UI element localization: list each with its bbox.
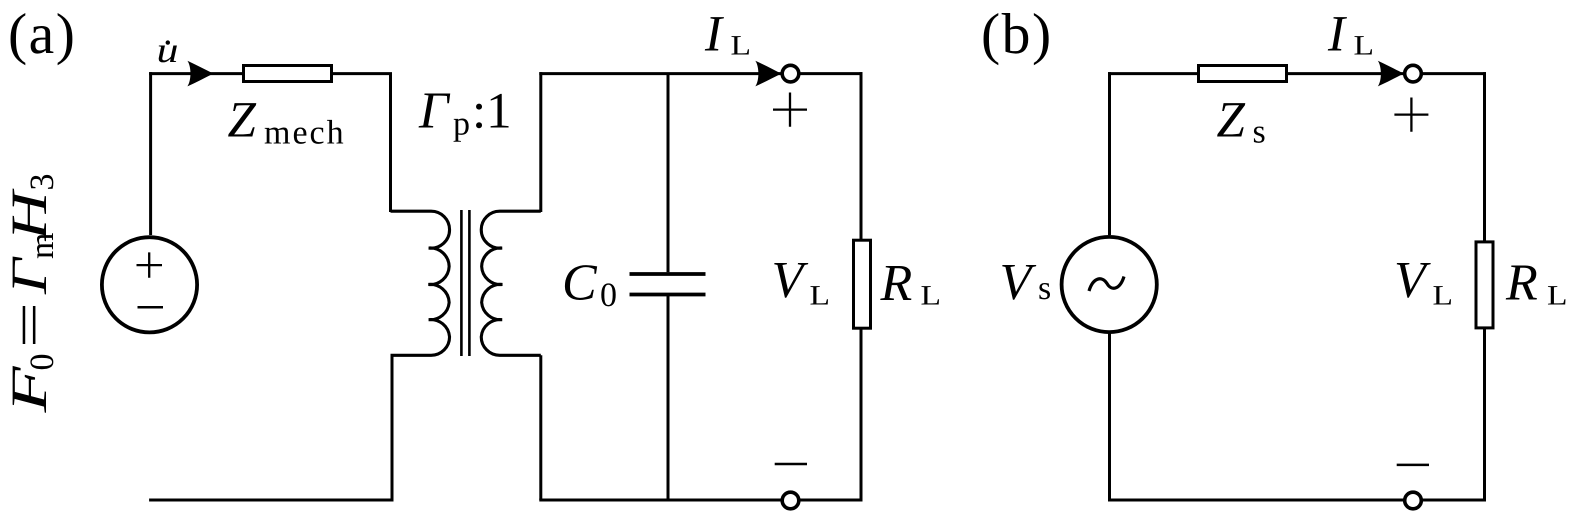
minus sign (b)	[1397, 464, 1429, 467]
plus sign (b)	[1394, 98, 1428, 132]
source circle (a)	[102, 237, 197, 332]
wire secondary bottom vertical	[539, 355, 542, 500]
svg-text::1: :1	[472, 84, 512, 140]
source minus	[138, 306, 164, 309]
transformer T1 primary coil	[391, 211, 450, 355]
terminal bottom (a)	[782, 492, 799, 509]
wire top a4	[800, 72, 863, 75]
wire bottom (b)	[1108, 499, 1486, 502]
transformer T1 secondary coil	[481, 211, 541, 355]
resistor Z_s	[1199, 66, 1287, 82]
svg-text:Z: Z	[228, 93, 257, 149]
svg-text:u: u	[157, 30, 179, 70]
wire top a1	[149, 72, 244, 75]
svg-text:s: s	[1038, 270, 1051, 307]
svg-text:R: R	[880, 255, 913, 312]
capacitor C0 plates	[630, 274, 706, 295]
resistor R_L (b)	[1476, 242, 1493, 328]
svg-text:V: V	[1394, 252, 1431, 309]
source plus	[137, 252, 163, 277]
terminal bottom (b)	[1405, 492, 1422, 509]
wire top a3	[539, 72, 781, 75]
svg-text:L: L	[810, 281, 831, 312]
terminal top (b)	[1405, 65, 1422, 82]
wire top b3	[1422, 72, 1486, 75]
source tilde	[1089, 277, 1124, 292]
terminal top (a)	[782, 65, 799, 82]
svg-text:L: L	[1354, 30, 1375, 61]
svg-text:Γ: Γ	[418, 83, 451, 140]
minus sign (a)	[775, 463, 807, 466]
wire top a2 to transformer	[332, 74, 391, 212]
current arrow I_L (b)	[1378, 61, 1404, 87]
svg-text:L: L	[731, 30, 752, 61]
wire right vertical top (a)	[860, 72, 863, 239]
svg-text:I: I	[1327, 6, 1347, 62]
svg-text:(b): (b)	[981, 3, 1053, 66]
svg-text:L: L	[921, 281, 942, 312]
wire bottom left (a)	[149, 355, 392, 500]
wire secondary top vertical	[539, 72, 542, 212]
wire left vertical bottom (b)	[1108, 332, 1111, 502]
current arrow u-dot	[187, 61, 213, 87]
svg-text:p: p	[453, 106, 470, 143]
svg-text:Z: Z	[1217, 92, 1246, 148]
wire right vertical bottom (b)	[1483, 327, 1486, 502]
svg-text:mech: mech	[264, 115, 346, 152]
svg-text:C: C	[562, 255, 598, 312]
wire left vertical top (b)	[1108, 72, 1111, 235]
svg-text:L: L	[1547, 281, 1568, 312]
resistor Z_mech	[244, 66, 332, 82]
transformer core	[461, 210, 469, 356]
wire bottom right (a)	[539, 499, 862, 502]
source circle V_s	[1062, 237, 1157, 332]
wire right vertical bottom (a)	[860, 329, 863, 502]
wire left vertical top	[149, 72, 152, 235]
plus sign (a)	[773, 93, 807, 127]
svg-text:s: s	[1253, 113, 1266, 150]
capacitor C0 top lead	[667, 74, 670, 273]
svg-text:0: 0	[600, 277, 617, 314]
svg-text:(a): (a)	[8, 3, 76, 66]
capacitor C0 bottom lead	[667, 295, 670, 501]
current arrow I_L (a)	[755, 61, 781, 87]
svg-text:L: L	[1433, 281, 1454, 312]
svg-text:R: R	[1505, 255, 1538, 312]
resistor R_L (a)	[854, 240, 871, 328]
wire top b2	[1287, 72, 1405, 75]
svg-text:F0=ΓmH3: F0=ΓmH3	[2, 174, 61, 414]
wire right vertical top (b)	[1483, 72, 1486, 241]
svg-text:V: V	[1000, 254, 1037, 311]
wire top b1	[1108, 72, 1199, 75]
svg-text:V: V	[772, 252, 809, 309]
svg-text:I: I	[704, 6, 724, 62]
